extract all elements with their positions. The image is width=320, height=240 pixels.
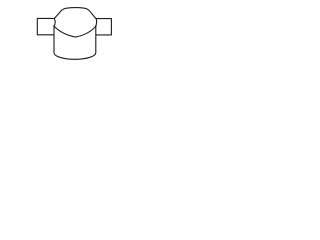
can body with rounded bottom (54, 26, 96, 60)
left terminal lug (37, 18, 54, 34)
cap skirt right edge (95, 19, 98, 26)
cap bottom rim arc (54, 26, 96, 37)
cap skirt left edge (54, 19, 55, 27)
right terminal lug (96, 19, 112, 35)
cap/dome outline (54, 8, 96, 19)
